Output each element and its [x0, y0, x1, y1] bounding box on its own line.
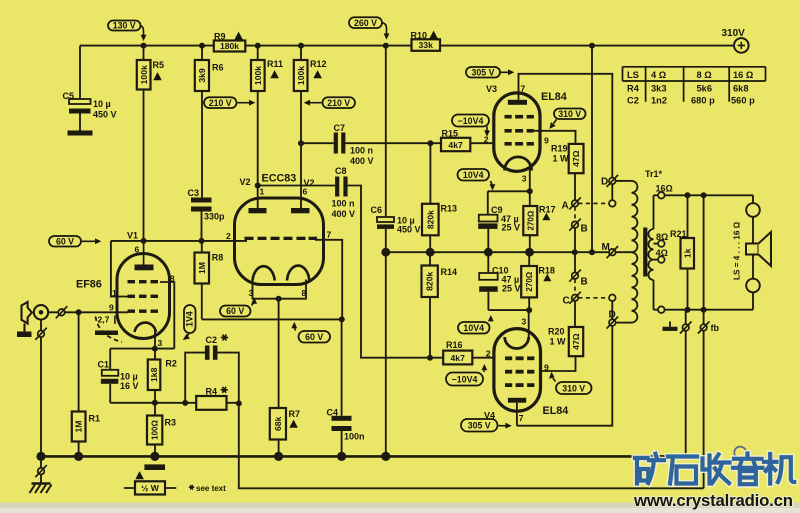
solid triangle markers: [135, 31, 551, 480]
switch contact input top: [56, 306, 68, 318]
svg-text:fb: fb: [711, 323, 720, 333]
svg-text:1n2: 1n2: [651, 96, 667, 106]
triangle R9: [234, 32, 243, 40]
svg-text:16Ω: 16Ω: [656, 183, 673, 193]
wire: dashed A to B: [574, 207, 576, 222]
svg-text:R20: R20: [548, 327, 565, 337]
node ground bus R1: [74, 452, 83, 461]
watermark characters kuang shi shou yin ji: [635, 454, 794, 485]
svg-text:3: 3: [249, 288, 254, 298]
svg-text:450 V: 450 V: [93, 110, 117, 120]
svg-text:8 Ω: 8 Ω: [697, 70, 713, 80]
terminal 4 ohm: [658, 256, 665, 263]
svg-text:R4: R4: [627, 84, 640, 94]
svg-text:310 V: 310 V: [562, 383, 585, 393]
wire: main ground bus: [41, 455, 686, 458]
svg-text:R12: R12: [310, 59, 327, 69]
wire: R11 to ECC83 pin1: [257, 46, 259, 209]
oval 210 V right: [304, 97, 355, 108]
wire: C' tap to D2: [611, 301, 613, 319]
svg-text:310V: 310V: [722, 28, 746, 39]
wire: cathode feedback line to R4: [110, 402, 239, 404]
svg-text:270Ω: 270Ω: [525, 271, 534, 291]
node C2 left R4: [182, 400, 188, 406]
tube V2 cathode arcs: [253, 266, 310, 281]
resistor R19: [569, 144, 584, 173]
tube V4 EL84 envelope: [494, 329, 541, 412]
svg-text:10V4: 10V4: [463, 323, 484, 333]
svg-text:1M: 1M: [197, 262, 207, 274]
svg-text:2: 2: [484, 135, 489, 145]
node R16 line R14: [427, 355, 433, 361]
svg-text:5k6: 5k6: [697, 84, 713, 94]
speaker terminal top: [746, 203, 760, 217]
svg-text:www.crystalradio.cn: www.crystalradio.cn: [633, 491, 793, 510]
wire: feedback tap vertical to fb terminal: [703, 195, 705, 488]
switch contact C: [569, 292, 581, 304]
resistor R2: [148, 360, 161, 391]
triangle R11: [270, 70, 279, 78]
node bottom line fb: [701, 307, 707, 313]
oval 60 V line: [291, 322, 330, 343]
svg-text:R13: R13: [441, 204, 458, 214]
svg-text:6k8: 6k8: [733, 84, 749, 94]
resistor R16: [443, 351, 472, 365]
wire: 4 ohm tap lead: [654, 259, 659, 261]
wire: ground leg from secondary bottom: [685, 310, 687, 457]
switch contact before earth: [35, 465, 47, 477]
svg-text:1M: 1M: [74, 421, 84, 433]
svg-text:B: B: [581, 276, 588, 287]
svg-text:1: 1: [260, 187, 265, 197]
wire: C2 left lead: [185, 353, 205, 403]
node centre rail R13 R14: [426, 248, 435, 257]
capacitor C4: [332, 416, 352, 431]
triangle legend: [135, 471, 144, 479]
oval 10V4 V4: [458, 315, 494, 334]
asterisk R4: [221, 387, 228, 393]
resistor R14: [422, 266, 438, 298]
svg-text:C8: C8: [335, 166, 347, 176]
wire: R21 leads: [687, 195, 689, 309]
tube V2 anode bars: [249, 208, 310, 213]
resistor R12: [294, 60, 308, 91]
triangle R7: [289, 420, 298, 428]
wire: R20 bottom to V4 pin9: [541, 356, 576, 371]
svg-text:R11: R11: [267, 59, 283, 69]
svg-text:see text: see text: [196, 484, 226, 493]
svg-text:1 W: 1 W: [550, 337, 567, 347]
svg-text:EF86: EF86: [76, 279, 102, 291]
capacitor C1: [101, 370, 118, 384]
input plug symbol: [22, 302, 32, 332]
oval 60 V ECC83 cathode: [220, 298, 257, 317]
svg-text:47Ω: 47Ω: [571, 333, 581, 350]
loudspeaker LS: [746, 232, 771, 266]
wire: V3 pin7 anode to upper D: [519, 74, 613, 178]
node R2 R3 C1: [152, 400, 158, 406]
triangle R12: [313, 70, 322, 78]
wire: D1 to A' tap: [611, 184, 613, 200]
svg-text:−10V4: −10V4: [452, 374, 478, 384]
earth ground bottom left: [30, 484, 52, 494]
svg-text:Tr1*: Tr1*: [645, 169, 663, 179]
wire: dashed A to A': [578, 202, 609, 204]
ground symbol below C5 handled above; ground bar at EF86 pins 2,7: [95, 331, 118, 336]
svg-text:C4: C4: [327, 407, 339, 417]
svg-text:60 V: 60 V: [226, 306, 244, 316]
resistor R15: [441, 138, 470, 151]
node centre rail R17 R18: [525, 248, 534, 257]
svg-text:V2: V2: [240, 177, 251, 187]
terminal C' on primary: [609, 295, 616, 302]
node centre rail C9 C10: [484, 248, 493, 257]
svg-text:C7: C7: [334, 123, 346, 133]
terminal 16 ohm: [658, 192, 665, 199]
node C2 right R4: [236, 400, 242, 406]
svg-text:68k: 68k: [273, 416, 283, 431]
svg-text:210 V: 210 V: [209, 98, 232, 108]
svg-text:1V4: 1V4: [185, 311, 195, 327]
node input R1: [76, 309, 82, 315]
node ground bus R7: [274, 452, 283, 461]
svg-text:C1: C1: [98, 360, 110, 370]
wire: D2 to primary bottom: [616, 322, 632, 324]
node V1 anode: [141, 238, 147, 244]
svg-text:3k9: 3k9: [197, 68, 207, 83]
wire: EF86 cathode chain R2 R3: [154, 328, 156, 456]
wire: C10 leads: [488, 252, 529, 310]
wire: R14 leads: [429, 252, 431, 358]
dashed switch links: [575, 203, 609, 297]
oval 60 V EF86: [49, 236, 101, 247]
svg-text:310 V: 310 V: [558, 109, 581, 119]
wire: V3 pin9 screen to R19: [534, 131, 576, 144]
wire: B+ feed down to output transformer centre tap: [591, 46, 593, 253]
fb terminal left: [680, 321, 692, 333]
node 16ohm line fb tap: [701, 192, 707, 198]
tube V2 ECC83 envelope: [235, 198, 324, 285]
tube V3 EL84 envelope: [494, 93, 540, 171]
svg-text:400 V: 400 V: [350, 156, 374, 166]
watermark logo circle: [734, 447, 746, 459]
wire: D2 down to V4 pin7: [517, 326, 612, 426]
svg-text:3k3: 3k3: [651, 84, 667, 94]
svg-text:25 V: 25 V: [502, 223, 521, 233]
svg-text:−10V4: −10V4: [458, 116, 484, 126]
tube V1 EF86 envelope: [117, 254, 170, 339]
svg-text:680 p: 680 p: [691, 96, 715, 106]
svg-text:9: 9: [544, 136, 549, 146]
triangle R5: [153, 72, 162, 80]
svg-text:1 W: 1 W: [553, 154, 570, 164]
svg-text:8Ω: 8Ω: [656, 232, 668, 242]
node 16ohm line R21: [685, 192, 691, 198]
wire: feedback return line along bottom: [239, 403, 704, 488]
svg-text:100 n: 100 n: [332, 199, 355, 209]
svg-text:560 p: 560 p: [731, 96, 755, 106]
wire: speaker loop: [752, 195, 754, 309]
svg-text:C2: C2: [627, 96, 639, 106]
tube V3 cathode arc: [505, 157, 532, 171]
oval 210 V left: [204, 97, 255, 108]
svg-text:47Ω: 47Ω: [571, 150, 581, 167]
svg-text:C: C: [563, 295, 570, 306]
svg-text:210 V: 210 V: [327, 98, 350, 108]
wire: R18 leads: [528, 252, 530, 310]
svg-text:820k: 820k: [425, 210, 435, 229]
node on rail at C6: [383, 43, 389, 49]
node C8 left: [255, 183, 261, 189]
tube V1 anode bar and pin6 stub: [135, 241, 154, 270]
speaker terminal bottom: [746, 279, 760, 293]
legend half-watt leads: [124, 487, 177, 489]
wire: R13 leads: [429, 143, 431, 252]
wire: jack ground leg: [40, 320, 42, 457]
resistor R1: [72, 412, 86, 442]
svg-text:100k: 100k: [296, 66, 306, 85]
svg-text:B: B: [581, 223, 588, 234]
wire: R6 to C3 vertical: [201, 46, 204, 241]
node on rail at R6: [199, 43, 205, 49]
node on rail at R12: [298, 43, 304, 49]
switch contact A: [569, 197, 581, 209]
svg-text:330p: 330p: [204, 212, 225, 222]
node centre rail B+ feed: [589, 249, 595, 255]
svg-text:305 V: 305 V: [468, 421, 491, 431]
switch contact D upper: [607, 175, 619, 187]
capacitor C8: [335, 177, 348, 197]
capacitor C6: [377, 217, 394, 229]
svg-text:R6: R6: [212, 63, 224, 73]
node ground bus R3: [150, 452, 159, 461]
tube pin number labels: [98, 84, 550, 424]
svg-text:D: D: [601, 176, 608, 187]
svg-text:M: M: [602, 242, 610, 253]
reference designator labels: [63, 28, 746, 442]
wire: top B+ rail: [80, 45, 734, 47]
svg-text:4k7: 4k7: [448, 140, 463, 150]
svg-text:8: 8: [170, 274, 175, 284]
svg-text:LS: LS: [627, 70, 639, 80]
switch contact B lower: [569, 270, 581, 282]
svg-text:400 V: 400 V: [332, 209, 356, 219]
svg-text:2: 2: [226, 231, 231, 241]
terminal 8 ohm: [658, 240, 665, 247]
wire: secondary bottom line: [654, 280, 754, 310]
tube V4 grid rows: [505, 356, 534, 387]
tube V4 cathode arc: [505, 337, 529, 349]
svg-text:R1: R1: [89, 414, 101, 424]
wire: C bottom to R20 top: [574, 301, 576, 327]
resistor R3: [147, 416, 162, 445]
resistor R20: [569, 327, 583, 356]
svg-text:130 V: 130 V: [113, 21, 136, 31]
wire: EF86 anode line to ECC83 grid: [111, 240, 247, 242]
node C3 R8: [199, 238, 205, 244]
oval -10V4 V3: [452, 115, 490, 137]
wire: V4 pin7 stub: [516, 403, 518, 426]
svg-text:305 V: 305 V: [472, 67, 495, 77]
wire: V3 grid line C7 to R15 to pin2: [301, 142, 494, 144]
triangle R18: [543, 274, 551, 282]
svg-text:60 V: 60 V: [305, 332, 323, 342]
node ECC83 cathode junction: [276, 296, 282, 302]
wire: fb ground symbol stem: [669, 322, 671, 327]
capacitor C7: [334, 133, 346, 154]
svg-text:270Ω: 270Ω: [526, 210, 535, 230]
svg-text:D: D: [609, 309, 616, 320]
terminal A' on primary: [609, 200, 616, 207]
wire: 8 ohm tap lead: [654, 243, 659, 245]
svg-text:3: 3: [158, 338, 163, 348]
svg-text:1k: 1k: [682, 248, 692, 258]
resistor R18: [521, 266, 537, 297]
node on rail at B+ feed: [589, 43, 595, 49]
svg-text:6: 6: [303, 187, 308, 197]
svg-text:ECC83: ECC83: [262, 173, 297, 185]
svg-text:R21: R21: [670, 229, 687, 239]
svg-text:4 Ω: 4 Ω: [651, 70, 667, 80]
svg-text:10 µ: 10 µ: [93, 99, 111, 109]
wire: input jack to EF86 grid: [48, 311, 128, 313]
node V3 cathode: [527, 188, 533, 194]
switch contact input lower: [35, 328, 47, 340]
wire: secondary 16ohm top line: [654, 195, 754, 229]
tube V2 grid dashed row: [245, 237, 318, 240]
wire: centre cathode/ground rail: [386, 251, 632, 253]
wire: ECC83 pin7 grid lead: [315, 240, 342, 320]
wire: D1 to primary top: [616, 180, 632, 182]
wire: ECC83 cathode bracket: [253, 280, 307, 299]
node centre rail C6: [381, 248, 390, 257]
svg-text:C3: C3: [188, 188, 200, 198]
node ground bus C4: [337, 452, 346, 461]
svg-text:2,7: 2,7: [98, 315, 110, 325]
svg-text:100k: 100k: [139, 65, 149, 84]
svg-text:R2: R2: [165, 359, 177, 369]
pins 2,7 tick mark: [114, 316, 116, 325]
oval -10V4 V4: [446, 364, 487, 386]
node 60V line pin7 C4: [339, 316, 345, 322]
ground bar near fb terminals: [663, 327, 678, 331]
svg-text:R19: R19: [551, 144, 568, 154]
wire: dashed C to C': [578, 297, 609, 299]
voltage ovals: [49, 17, 592, 431]
svg-text:100 n: 100 n: [350, 146, 373, 156]
resistor R9: [214, 41, 246, 52]
capacitor C2: [205, 346, 218, 360]
wire: R12 to ECC83 pin6: [300, 46, 302, 209]
svg-text:6: 6: [135, 245, 140, 255]
fb terminal right: [698, 321, 710, 333]
wire: C1 leads: [109, 349, 111, 403]
node on rail at R5: [141, 43, 147, 49]
svg-text:R15: R15: [442, 129, 459, 139]
wire: R17 leads: [529, 191, 531, 252]
svg-text:100Ω: 100Ω: [151, 420, 160, 440]
svg-text:2: 2: [486, 349, 491, 359]
resistor R8: [195, 253, 210, 284]
oval 260 V: [349, 17, 389, 39]
svg-text:LS = 4 . . . 16 Ω: LS = 4 . . . 16 Ω: [733, 221, 742, 280]
transformer Tr1 secondary winding: [648, 229, 653, 280]
resistor R7: [270, 408, 286, 440]
oval 310 V V3: [549, 109, 585, 129]
wire: C4 leads: [341, 319, 343, 456]
svg-text:180k: 180k: [220, 41, 239, 51]
resistor R21: [681, 238, 695, 269]
asterisk see text: [189, 485, 194, 490]
svg-text:16 Ω: 16 Ω: [733, 70, 754, 80]
svg-text:7: 7: [327, 230, 332, 240]
terminal secondary bottom: [658, 306, 665, 313]
hand drawn asterisks: [189, 335, 228, 490]
wire: ECC83 cathodes to R7: [278, 299, 280, 457]
svg-text:R5: R5: [153, 60, 165, 70]
svg-text:3: 3: [522, 316, 527, 326]
capacitor C3: [191, 198, 212, 212]
svg-text:R14: R14: [441, 267, 458, 277]
switch contact D lower: [607, 317, 619, 329]
node C7 left: [298, 140, 304, 146]
svg-text:V3: V3: [486, 84, 497, 94]
value texts inside vertical resistors (rotated): [74, 65, 693, 440]
oval 305 V V4: [461, 419, 512, 432]
oval 130 V: [108, 21, 146, 42]
svg-text:10V4: 10V4: [463, 170, 484, 180]
svg-text:4Ω: 4Ω: [656, 248, 668, 258]
svg-text:R17: R17: [539, 205, 556, 215]
svg-text:3: 3: [522, 174, 527, 184]
svg-text:9: 9: [109, 303, 114, 313]
svg-text:1k8: 1k8: [149, 367, 159, 382]
svg-text:7: 7: [519, 413, 524, 423]
tube type labels: [76, 84, 568, 421]
svg-text:R3: R3: [165, 418, 177, 428]
wire: 60V line R8 to C4 tap: [202, 318, 342, 320]
svg-text:C6: C6: [371, 205, 383, 215]
triangle R17: [542, 213, 550, 221]
node bottom line R21: [685, 307, 691, 313]
svg-text:R7: R7: [289, 409, 301, 419]
svg-text:R4: R4: [206, 386, 218, 396]
svg-text:½ W: ½ W: [141, 483, 160, 493]
tube V3 grid rows: [505, 115, 534, 146]
tube V3 anode bar: [508, 100, 527, 105]
wire: C9 R17 cathode line V3: [488, 165, 530, 252]
wire: B1 to B2 through centre rail: [574, 228, 576, 273]
wire: dashed B2 to C: [574, 279, 576, 295]
svg-text:820k: 820k: [425, 272, 435, 291]
svg-text:R16: R16: [446, 340, 463, 350]
svg-text:100n: 100n: [344, 432, 365, 442]
svg-text:R18: R18: [538, 266, 555, 276]
wire: C5 branch from rail: [79, 46, 81, 131]
asterisk C2: [221, 335, 228, 341]
svg-text:1: 1: [112, 288, 117, 298]
svg-text:100k: 100k: [253, 66, 263, 85]
tube V1 dashed suppressor arc: [96, 317, 123, 343]
wire: C2 right lead: [218, 353, 239, 404]
node centre rail switch chain: [572, 249, 578, 255]
oval 310 V V4: [549, 372, 592, 394]
oval 305 V V3: [466, 67, 514, 78]
svg-text:8: 8: [302, 288, 307, 298]
wire: R8 leads: [201, 241, 203, 320]
switch contact M: [607, 246, 619, 258]
wire: R5 anode load vertical: [143, 46, 145, 241]
